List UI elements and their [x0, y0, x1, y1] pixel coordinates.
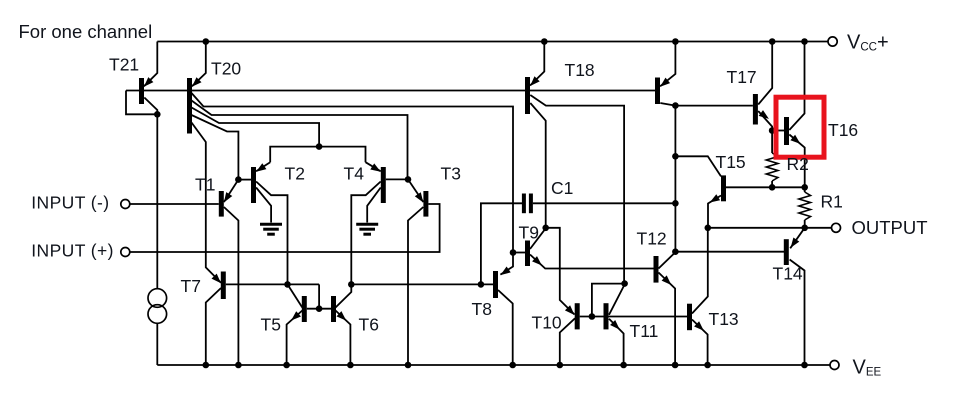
wire T18 collector b to T9 collector node [530, 103, 545, 228]
node T11 emitter rail junction [620, 362, 627, 369]
arrow T19 emitter (PNP) [660, 78, 670, 87]
wire T16 collector [789, 42, 804, 131]
node T7 collector rail junction [203, 362, 210, 369]
wire T9 collector [530, 228, 546, 249]
arrow T13 emitter (NPN) [694, 321, 704, 331]
svg-text:VCC+: VCC+ [847, 32, 889, 54]
arrow T14 emitter (PNP) [791, 238, 800, 248]
svg-text:T15: T15 [716, 152, 746, 172]
wire junction to T10 emitter [546, 228, 575, 315]
node T1 collector rail junction [235, 362, 242, 369]
transistor T11 base bar [604, 303, 609, 329]
node T12 emitter rail junction [672, 362, 679, 369]
wire T10 collector to V_EE rail [560, 318, 575, 365]
transistor T9 base bar [525, 241, 530, 267]
wire T19 emitter feed [660, 42, 675, 87]
wire T11 emitter [609, 319, 624, 365]
wire V_EE bottom rail [157, 364, 831, 366]
svg-text:For one channel: For one channel [19, 21, 153, 42]
svg-text:R1: R1 [821, 191, 843, 211]
wire T4 emitter [366, 162, 381, 171]
svg-text:T13: T13 [709, 309, 739, 329]
wire R2 bottom lead [771, 181, 773, 187]
capacitor C1 plate left [522, 194, 526, 214]
node T12 collector junction [672, 248, 679, 255]
svg-text:T18: T18 [565, 60, 595, 80]
node T21 collector junction [154, 111, 161, 118]
node T9 base junction [510, 249, 517, 256]
svg-text:VEE: VEE [853, 357, 882, 379]
wire T6 collector [336, 284, 352, 307]
svg-text:T21: T21 [109, 54, 139, 74]
svg-text:T17: T17 [727, 67, 757, 87]
wire T15 base to R2/R1 node [726, 186, 805, 188]
arrow T8 emitter (PNP) [500, 267, 510, 276]
wire T11 collector [609, 285, 625, 315]
svg-text:T11: T11 [630, 321, 659, 341]
arrow T5 emitter (NPN) [291, 311, 301, 320]
transistor T14 base bar [784, 239, 789, 265]
node T17 collector junction [769, 38, 776, 45]
wire T13 collector [692, 228, 708, 314]
transistor T12 base bar [654, 256, 659, 283]
wire T1 emitter node [224, 180, 239, 202]
arrow T7 emitter (PNP) [212, 274, 222, 284]
arrow T11 emitter (NPN) [610, 320, 620, 330]
wire T7 base line [226, 283, 319, 285]
wire INPUT(-) to T1 base [130, 203, 219, 205]
wire T18 collector a to T10/T11 mirror [530, 95, 624, 284]
wire T4 collector a to T6 collector node [351, 182, 380, 285]
transistor T1 base bar [219, 191, 224, 217]
arrow T20 emitter (PNP) [192, 77, 202, 87]
node T20 emitter junction [203, 38, 210, 45]
node T8 collector rail junction [509, 362, 516, 369]
resistor R2 zigzag [766, 153, 778, 181]
transistor T5 base bar [302, 296, 307, 322]
node C1/T8 base junction [478, 281, 485, 288]
arrow T4 emitter (PNP) [370, 163, 380, 171]
wire T2 emitter [256, 162, 270, 171]
node T10/T11 base junction [589, 313, 596, 320]
node T16 collector junction [801, 38, 808, 45]
svg-text:T5: T5 [261, 314, 281, 334]
transistor T10 base bar [575, 303, 580, 329]
node R1 top junction [801, 184, 808, 191]
wire mirror tie from T11 collector node [592, 284, 625, 317]
wire T4 collector b to ground [367, 188, 381, 223]
terminal V_EE [830, 361, 839, 370]
wire T20 collector c2 to T3/T4 base node [192, 101, 408, 180]
wire T18 emitter feed [530, 42, 544, 86]
node T18 emitter junction [541, 38, 548, 45]
svg-text:T10: T10 [532, 312, 562, 332]
wire T3 collector to V_EE rail [408, 207, 423, 365]
node T3 collector rail junction [405, 362, 412, 369]
wire T16 base [772, 130, 784, 132]
wire mirror tie down to T5/T6 bases [318, 284, 320, 308]
ground under T2 [260, 223, 282, 226]
wire T5 emitter [287, 311, 303, 366]
arrow T15 emitter (PNP) [710, 194, 720, 202]
transistor T17 base bar [753, 94, 758, 125]
wire T1 emitter node to T2 base [238, 179, 251, 181]
wire T3 emitter node to T4 base [386, 178, 408, 180]
transistor T4 base bar [381, 167, 386, 203]
wire T20 collector c1 to T9 base [192, 93, 514, 253]
wire T12 emitter [659, 273, 676, 366]
node T16 base junction [769, 127, 776, 134]
wire T20 collector c5 to T7 emitter [192, 123, 222, 283]
node T2 collector/T5 collector junction [284, 281, 291, 288]
node OUTPUT/T13 junction [705, 225, 712, 232]
node T11 collector junction [621, 280, 628, 287]
svg-text:T14: T14 [773, 264, 803, 284]
node T6 collector junction [348, 281, 355, 288]
current source circle 1 [148, 289, 167, 308]
transistor T16 base bar [784, 117, 789, 145]
node diff rail junction [316, 143, 323, 150]
node T10 collector rail junction [557, 362, 564, 369]
wire T17 emitter [758, 111, 772, 131]
svg-text:OUTPUT: OUTPUT [852, 217, 928, 238]
transistor T20 base bar [187, 78, 192, 134]
svg-text:T2: T2 [285, 163, 305, 183]
svg-text:T1: T1 [195, 175, 215, 195]
node T13 emitter rail junction [704, 362, 711, 369]
transistor T7 base bar [221, 272, 226, 300]
wire T14 base [675, 251, 784, 253]
wire T20 emitter feed [192, 42, 206, 87]
node T5 emitter rail junction [283, 362, 290, 369]
svg-text:R2: R2 [787, 154, 809, 174]
wire R1 leads [804, 187, 806, 192]
node T15 collector junction [672, 153, 679, 160]
terminal INPUT(+) [121, 248, 130, 257]
svg-text:T6: T6 [359, 314, 379, 334]
arrow T16 emitter (NPN) [790, 135, 800, 144]
ground under T4 [356, 223, 378, 226]
wire T10/T11/T13 base line [580, 316, 687, 318]
wire T14 collector to V_EE rail [790, 260, 805, 366]
wire T20 collector c3 to diff pair rail [192, 108, 320, 147]
wire T16 emitter [789, 135, 804, 188]
svg-text:T4: T4 [344, 163, 365, 183]
svg-text:T7: T7 [181, 276, 201, 296]
node R1 bottom junction [801, 225, 808, 232]
terminal V_CC+ [828, 37, 837, 46]
wire T9 emitter to T12 base [530, 255, 654, 269]
wire diff pair emitter rail [270, 147, 365, 163]
node T19 collector junction [672, 102, 679, 109]
node R2 bottom junction [769, 184, 776, 191]
wire T21 emitter feed [144, 42, 157, 87]
arrow T1 emitter (PNP) [224, 192, 232, 202]
wire T15 emitter [708, 196, 721, 228]
wire base bus T21-T20-T18-T19 [126, 90, 655, 92]
transistor T13 base bar [687, 304, 692, 331]
node T1 emitter junction [235, 176, 242, 183]
wire T7 collector to V_EE rail [206, 288, 221, 365]
wire R2 top lead [771, 131, 773, 154]
svg-text:T3: T3 [441, 163, 461, 183]
transistor T19 base bar [655, 78, 660, 105]
node T14 collector rail junction [801, 362, 808, 369]
svg-text:INPUT (-): INPUT (-) [31, 192, 109, 212]
wire T1 collector to V_EE rail [224, 207, 239, 365]
wire T13 emitter [692, 320, 708, 366]
wire T6 emitter [336, 311, 351, 366]
wire T20 collector c4 to T1 emitter node [192, 115, 239, 180]
arrow T18 emitter (PNP) [530, 76, 540, 86]
wire T12 collector [659, 252, 676, 268]
wire T21 base-collector loop [126, 91, 157, 115]
wire T15 collector [675, 156, 721, 176]
wire T5 collector [288, 284, 303, 307]
wire T2 collector b to ground [256, 188, 271, 223]
node T19 emitter junction [672, 38, 679, 45]
transistor T8 base bar [493, 271, 498, 298]
transistor T15 base bar [721, 175, 726, 201]
wire T6 collector node to T8 base [351, 283, 493, 285]
svg-text:T9: T9 [519, 222, 539, 242]
terminal INPUT(-) [121, 200, 130, 209]
wire OUTPUT line [708, 227, 832, 229]
node T5/T6 base junction [316, 305, 323, 312]
node T18/T9 collector junction [542, 225, 549, 232]
transistor T18 base bar [525, 77, 530, 114]
wire left column to current source [156, 114, 158, 288]
highlight box around T16 [776, 97, 824, 157]
arrow T10 emitter (PNP) [565, 305, 575, 315]
arrow T6 emitter (NPN) [337, 311, 347, 321]
svg-text:T16: T16 [828, 120, 858, 140]
arrow T12 emitter (NPN) [662, 275, 672, 285]
node T3 emitter junction [405, 176, 412, 183]
transistor T2 base bar [251, 167, 256, 203]
svg-text:T20: T20 [211, 59, 241, 79]
wire T5/T6 base tie [307, 308, 331, 310]
wire C1 right lead [533, 202, 676, 204]
svg-text:INPUT (+): INPUT (+) [31, 240, 114, 260]
svg-text:T12: T12 [637, 229, 667, 249]
wire T3 emitter node [408, 179, 423, 202]
transistor T6 base bar [331, 296, 336, 322]
arrow T9 emitter (NPN) [532, 256, 542, 265]
wire T8 collector to V_EE rail [498, 290, 513, 365]
wire T8 emitter from T9 base node [500, 253, 513, 275]
arrow T2 emitter (PNP) [256, 163, 266, 172]
arrow T17 emitter (NPN) [759, 110, 769, 119]
transistor T3 base bar [423, 191, 428, 217]
current source circle 2 [148, 305, 167, 324]
wire V_CC+ top rail [157, 41, 828, 43]
svg-text:C1: C1 [551, 178, 573, 198]
wire INPUT(+) to T3 base [130, 204, 440, 252]
wire T9 base [513, 252, 525, 254]
terminal OUTPUT [832, 223, 841, 232]
wire T21 collector [144, 98, 157, 115]
arrow T21 emitter (PNP) [144, 77, 154, 87]
wire T2 collector a to mirror node [256, 182, 287, 285]
node C1 right junction [672, 200, 679, 207]
arrow T3 emitter (PNP) [415, 192, 424, 202]
resistor R1 zigzag [799, 192, 811, 220]
transistor T21 base bar [139, 78, 144, 104]
wire T17 base [675, 105, 753, 107]
capacitor C1 plate right [529, 194, 533, 214]
wire T19 collector [660, 103, 675, 106]
node T6 emitter rail junction [347, 362, 354, 369]
svg-text:T8: T8 [472, 299, 492, 319]
wire T14 emitter from OUTPUT node [790, 228, 805, 249]
wire current source to V_EE rail [156, 323, 158, 365]
wire C1 left lead [481, 203, 522, 284]
wire VAS column [674, 106, 676, 252]
wire T17 collector [758, 42, 772, 105]
